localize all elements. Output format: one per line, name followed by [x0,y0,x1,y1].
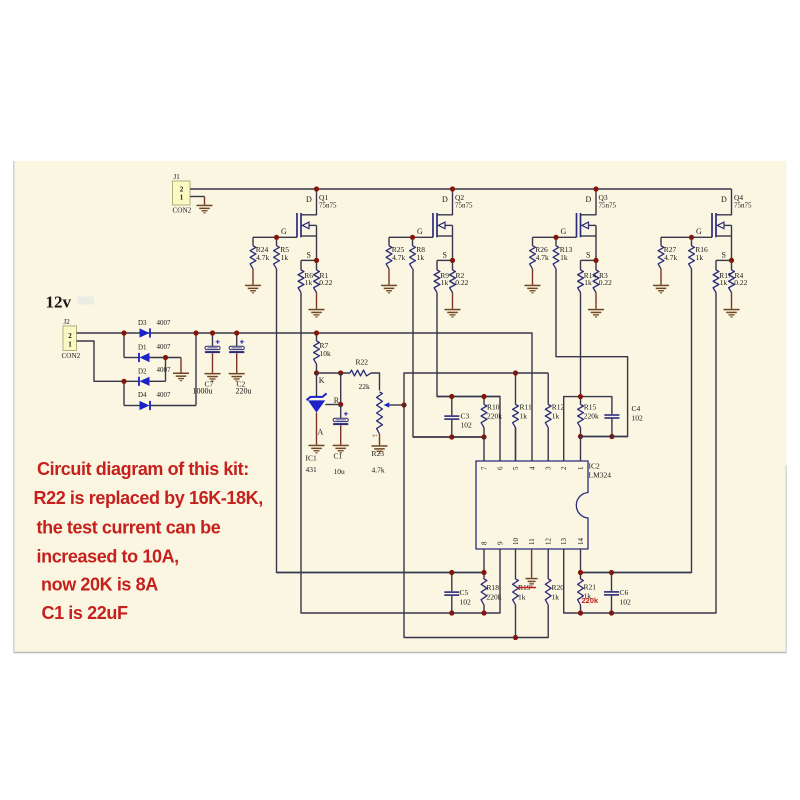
svg-text:C6: C6 [620,588,629,597]
wire gate net Q1 [253,236,297,238]
svg-text:C4: C4 [632,404,641,413]
node R15 bottom [578,434,583,439]
wire AC2 down to D4 [123,381,125,405]
wire pin6 bus [437,396,500,398]
op-amp U2 LM324 body [476,461,611,549]
svg-text:6: 6 [497,466,505,470]
resistor R20 1k [545,549,564,605]
svg-text:4007: 4007 [157,366,172,374]
svg-text:10k: 10k [320,349,332,358]
node C3 bottom [449,434,454,439]
svg-text:1: 1 [180,194,184,202]
svg-text:220u: 220u [236,387,252,396]
wire source net Q3 [581,259,597,261]
svg-text:7: 7 [481,466,489,470]
wire R9 to pin6 bus [437,293,500,462]
node drain Q1 [314,186,319,191]
wire top +DRAIN rail [190,188,732,190]
resistor R15 220k [578,397,599,437]
resistor R21 220k [578,573,599,614]
wire pin5 stub [515,428,517,462]
wire source net Q2 [437,259,453,261]
svg-text:102: 102 [620,598,632,607]
pin 1 label [577,466,585,470]
svg-text:J1: J1 [174,173,181,181]
svg-text:C1 is 22uF: C1 is 22uF [42,603,128,623]
connector J1 [173,173,192,215]
svg-text:10u: 10u [334,467,346,476]
resistor R7 10k [314,333,331,373]
svg-text:S: S [722,251,726,260]
svg-text:1: 1 [577,466,585,470]
wire ref vertical [340,373,342,405]
resistor R27 4.7k [658,237,677,284]
ground R2 [445,309,461,318]
node +12V D3 [193,330,198,335]
svg-text:1k: 1k [552,412,560,421]
ground R27 [653,285,669,294]
resistor R16 1k [689,237,708,268]
ground C2 [229,373,245,382]
resistor R9 1k [434,260,449,292]
wire pin7 stub [483,437,485,461]
capacitor C5 102 [444,573,471,614]
capacitor C3 102 [444,397,472,438]
svg-text:75n75: 75n75 [734,202,752,210]
ground R26 [525,285,541,294]
capacitor C7 1000u [193,333,221,396]
transistor Q4 75n75 [696,189,752,260]
wire J2 pin1 to D2 [77,341,125,381]
svg-text:D4: D4 [138,391,147,399]
ground C1 [333,445,349,454]
resistor R8 1k [410,237,426,268]
wire R17 to pin13 bus [564,293,716,614]
svg-text:220k: 220k [487,593,502,602]
svg-text:3: 3 [545,466,553,470]
svg-text:C3: C3 [461,412,470,421]
svg-text:LM324: LM324 [589,471,612,480]
pin 11 label [528,538,536,545]
wire J1 pin1 to ground [190,197,205,205]
resistor R22 22k [350,358,371,392]
pin 7 label [481,466,489,470]
potentiometer R23 4.7k [372,392,405,475]
svg-text:D2: D2 [138,367,147,375]
svg-text:220k: 220k [487,412,502,421]
node source Q1 [314,258,319,263]
ground R4 [724,309,740,318]
svg-text:1000u: 1000u [193,387,213,396]
resistor R5 1k [274,237,290,268]
node C6 top [609,570,614,575]
resistor R11 1k [513,373,532,461]
svg-text:220k: 220k [582,596,600,605]
node C3 top [449,394,454,399]
resistor R19 1k [513,549,536,638]
svg-text:J2: J2 [64,318,71,326]
resistor R17 1k [713,260,732,292]
svg-text:the test current can be: the test current can be [37,518,221,538]
svg-text:1: 1 [68,341,72,349]
svg-text:IC1: IC1 [306,454,318,463]
wire pin1 stub [580,437,582,462]
wire pin14 bus [581,549,692,573]
wire C4 bottom bus [581,436,628,438]
wire R8 to pin7 bus [413,269,484,437]
svg-text:4007: 4007 [157,391,172,399]
svg-text:2: 2 [68,332,72,340]
node K [314,370,319,375]
svg-text:14: 14 [577,538,585,546]
ground bridge [173,373,189,382]
node R7 top [314,330,319,335]
svg-text:0.22: 0.22 [455,278,468,287]
wire R14 to pin2 bus [580,293,582,397]
svg-text:A: A [318,428,324,437]
svg-text:102: 102 [461,421,473,430]
svg-text:R11: R11 [520,403,532,412]
svg-text:22k: 22k [359,382,371,391]
node wiper [401,402,406,407]
wire D4 row [124,405,196,407]
op-amp IC1 431 [306,373,341,474]
resistor R6 1k [298,260,313,292]
wire wiper down to R19 R20 bus [404,405,548,638]
label K [319,376,325,385]
svg-text:G: G [696,227,702,236]
node source Q4 [729,258,734,263]
wire pin8 stub [483,549,485,573]
svg-text:1k: 1k [552,593,560,602]
svg-text:2: 2 [560,466,568,470]
resistor R4 0.22 [729,260,748,308]
svg-text:e+: e+ [373,434,378,439]
svg-text:R21: R21 [584,583,597,592]
diode D1 4007 [138,343,171,362]
svg-text:IC2: IC2 [589,462,601,471]
svg-text:C5: C5 [460,588,469,597]
pin 10 label [512,538,520,546]
wire R6 to pin9 bus [301,293,500,614]
svg-text:8: 8 [481,541,489,545]
wire D4 cathode up [195,333,197,406]
wire wiper to inputs [404,373,548,405]
node R18 bottom [481,610,486,615]
svg-text:R22 is replaced by 16K-18K,: R22 is replaced by 16K-18K, [34,488,263,508]
svg-text:1k: 1k [520,412,528,421]
node AC1 [121,330,126,335]
diode D2 4007 [138,366,171,386]
svg-text:4.7k: 4.7k [392,253,405,262]
wire AC1 down to D1 [123,333,125,358]
svg-text:R15: R15 [584,403,597,412]
node bridge gnd [163,355,168,360]
svg-text:102: 102 [632,414,644,423]
pin 14 label [577,538,585,546]
node C5 bottom [449,610,454,615]
pin 9 label [497,541,505,545]
svg-text:4007: 4007 [157,319,172,327]
ground C7 [205,373,221,382]
transistor Q2 75n75 [417,189,473,260]
wire R16 to pin14 bus [580,269,692,573]
wire pin7 bus [413,436,484,438]
node gate Q3 [553,235,558,240]
resistor R24 4.7k [250,237,269,284]
svg-text:G: G [417,227,423,236]
svg-text:0.22: 0.22 [734,278,747,287]
wire K row [317,372,351,374]
resistor R14 1k [578,260,597,292]
node R15 top [578,394,583,399]
resistor R12 1k [545,373,564,461]
svg-text:75n75: 75n75 [455,202,473,210]
svg-text:0.22: 0.22 [319,278,332,287]
ground R1 [309,309,325,318]
pin 13 label [560,538,568,546]
resistor R10 220k [481,397,502,438]
svg-text:4: 4 [529,466,537,470]
ground pin11 [526,549,538,587]
svg-text:4.7k: 4.7k [372,466,385,475]
svg-text:11: 11 [528,538,536,545]
node source Q2 [450,258,455,263]
resistor R26 4.7k [530,237,549,284]
annotation red text [34,459,263,623]
ground R23 [372,445,388,454]
wire gate net Q4 [661,236,712,238]
svg-text:R22: R22 [356,358,369,367]
label 12v [46,293,72,312]
node C7 [210,330,215,335]
svg-text:CON2: CON2 [62,352,81,360]
svg-text:S: S [586,251,590,260]
svg-text:5: 5 [512,466,520,470]
node K-R22 [338,370,343,375]
connector J2 [62,318,81,360]
pin 6 label [497,466,505,470]
svg-text:102: 102 [460,598,472,607]
wire gate net Q2 [389,236,433,238]
node R11 top [513,370,518,375]
capacitor C4 102 [604,404,643,437]
svg-text:S: S [443,251,447,260]
pin 3 label [545,466,553,470]
svg-text:now 20K is 8A: now 20K is 8A [41,575,158,595]
svg-text:2: 2 [180,186,184,194]
svg-text:R20: R20 [552,583,565,592]
ground R25 [381,285,397,294]
node ref [338,402,343,407]
svg-text:4.7k: 4.7k [256,253,269,262]
diode D3 4007 [138,319,171,338]
wire D1 anode to ground [180,358,182,373]
svg-text:4.7k: 4.7k [536,253,549,262]
diode D4 4007 [138,391,171,410]
pin 8 label [481,541,489,545]
svg-text:1k: 1k [720,278,728,287]
svg-text:increased to 10A,: increased to 10A, [37,547,179,567]
node gate Q1 [274,235,279,240]
svg-text:1k: 1k [441,278,449,287]
wire R13 to pin1 net [556,269,628,437]
svg-text:220k: 220k [584,412,599,421]
node drain Q2 [450,186,455,191]
transistor Q3 75n75 [561,189,617,260]
wire D2 row [124,380,166,382]
svg-text:4.7k: 4.7k [664,253,677,262]
capacitor C2 220u [229,333,251,396]
svg-text:D: D [721,195,727,204]
wire pin8 bus [277,572,485,574]
svg-text:4007: 4007 [157,343,172,351]
svg-text:Circuit diagram of this kit:: Circuit diagram of this kit: [37,459,249,479]
wire D1 row [124,357,181,359]
wire D2 anode up [165,358,167,382]
svg-text:D3: D3 [138,319,147,327]
svg-text:1k: 1k [417,253,425,262]
svg-text:D: D [586,195,592,204]
node AC2 [121,379,126,384]
svg-text:75n75: 75n75 [599,202,617,210]
svg-text:13: 13 [560,538,568,546]
wire gate net Q3 [533,236,577,238]
pin 4 label [529,466,537,470]
capacitor C1 10u [333,405,348,477]
node R19 bottom [513,635,518,640]
transistor Q1 75n75 [281,189,337,260]
ground R3 [588,309,604,318]
node R18 top [481,570,486,575]
node R21 bottom [578,610,583,615]
svg-text:0.22: 0.22 [599,278,612,287]
resistor R2 0.22 [450,260,469,308]
svg-text:1k: 1k [584,278,592,287]
node C5 top [449,570,454,575]
pin 5 label [512,466,520,470]
svg-text:K: K [319,376,325,385]
node drain Q3 [593,186,598,191]
svg-text:1k: 1k [305,278,313,287]
node C2 [234,330,239,335]
ground J1 [197,205,213,214]
svg-text:R12: R12 [552,403,565,412]
resistor R3 0.22 [593,260,612,308]
svg-text:R10: R10 [487,403,500,412]
wire R5 to pin8 bus [277,269,485,573]
svg-text:D1: D1 [138,344,147,352]
svg-text:431: 431 [306,465,318,474]
resistor R25 4.7k [386,237,405,284]
svg-text:D: D [306,195,312,204]
wire source net Q1 [301,259,317,261]
svg-text:10: 10 [512,538,520,546]
svg-text:12v: 12v [46,293,72,312]
pin 2 label [560,466,568,470]
node C6 bottom [609,610,614,615]
pin 12 label [545,538,553,546]
svg-text:D: D [442,195,448,204]
resistor R13 1k [553,237,572,268]
svg-text:1k: 1k [560,253,568,262]
wire R22 to pot [371,373,380,391]
svg-text:75n75: 75n75 [319,202,337,210]
wire +12V rail [77,333,533,461]
resistor R1 0.22 [314,260,333,308]
svg-text:R18: R18 [487,583,500,592]
svg-text:9: 9 [497,541,505,545]
node C4 bottom [609,434,614,439]
node source Q3 [593,258,598,263]
wire pin2 bus [564,397,612,461]
resistor R18 220k [481,573,502,614]
svg-text:1k: 1k [696,253,704,262]
wire source net Q4 [716,259,732,261]
node R10 top [481,394,486,399]
svg-text:1k: 1k [518,593,526,602]
capacitor C6 102 [604,573,631,614]
svg-text:CON2: CON2 [173,207,192,215]
node R21 top [578,570,583,575]
svg-text:12: 12 [545,538,553,546]
ground R24 [245,285,261,294]
node R10 bottom [481,434,486,439]
ground IC1 [309,445,325,454]
svg-text:G: G [561,227,567,236]
svg-text:1k: 1k [281,253,289,262]
svg-text:S: S [307,251,311,260]
node gate Q4 [689,235,694,240]
svg-text:G: G [281,227,287,236]
svg-text:R23: R23 [372,449,385,458]
node gate Q2 [410,235,415,240]
